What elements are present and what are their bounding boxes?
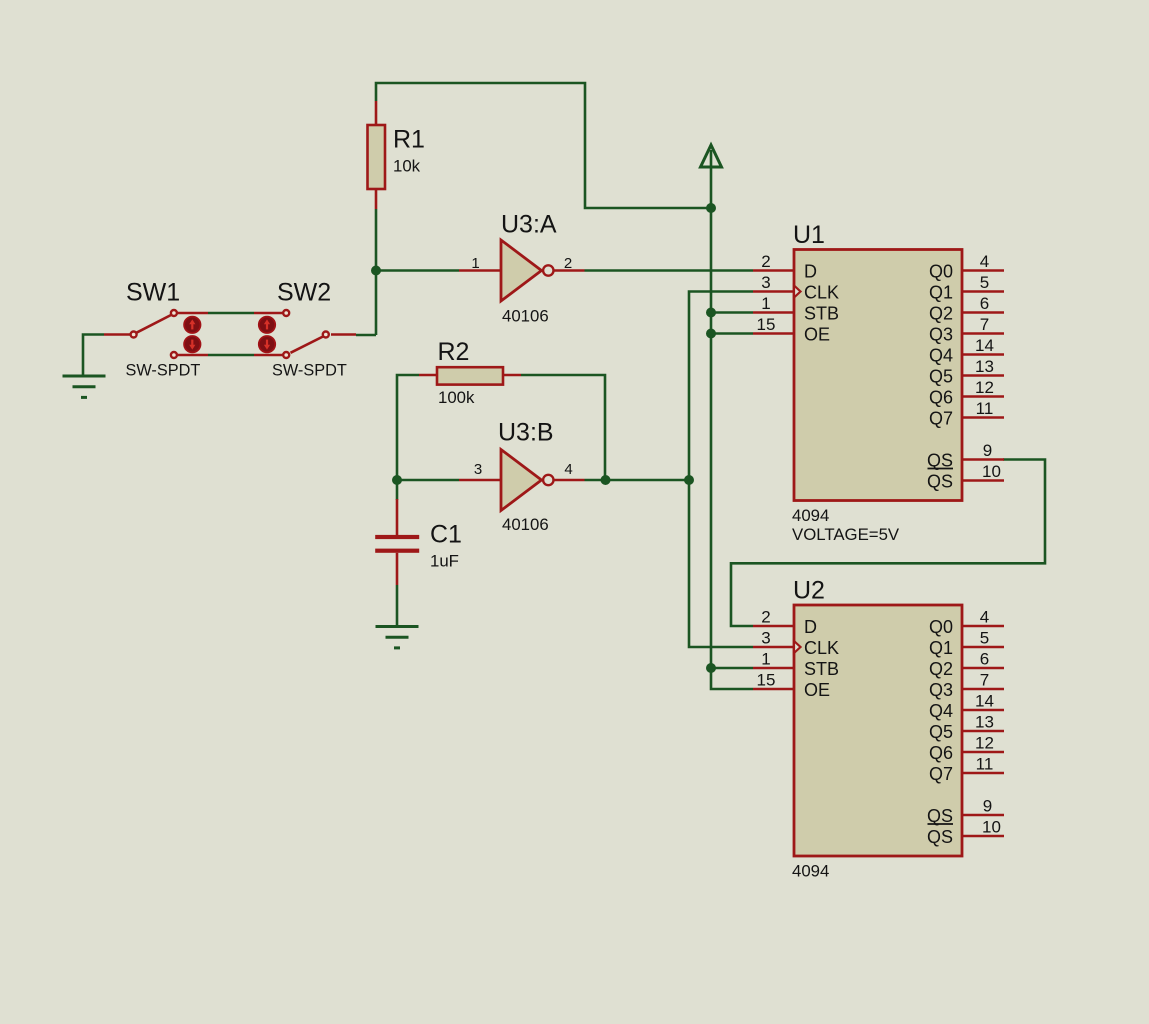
svg-text:5: 5	[980, 273, 989, 292]
IC U2 pin name QS-bar	[927, 824, 953, 847]
svg-text:40106: 40106	[502, 515, 549, 534]
switch SW2 throw bottom pin	[254, 354, 283, 357]
IC U2 CLK edge arrow	[794, 641, 801, 653]
inverter gate U3:A (40106)	[459, 240, 585, 301]
svg-text:9: 9	[983, 441, 992, 460]
svg-text:C1: C1	[430, 521, 462, 549]
svg-text:QS: QS	[927, 472, 953, 492]
IC U1 pin name QS-bar	[927, 469, 953, 492]
label SW1	[126, 279, 180, 307]
IC U2 pin 11 (Q7) stub	[962, 772, 1004, 775]
svg-text:10: 10	[982, 462, 1001, 481]
svg-text:4: 4	[564, 461, 572, 478]
svg-text:1: 1	[761, 650, 770, 669]
svg-text:Q4: Q4	[929, 346, 953, 366]
wire U1 OE branch	[711, 332, 753, 335]
pin number 4 (U3:B out)	[564, 461, 572, 478]
svg-text:9: 9	[983, 797, 992, 816]
IC U2 pin 1 (STB) stub	[753, 667, 794, 670]
IC U2 pin name Q2	[929, 659, 953, 679]
IC U1 pin number 2	[761, 252, 770, 271]
IC U2 pin name STB	[804, 659, 839, 679]
node junction R2 right / U3:B out	[601, 475, 611, 485]
IC U1 pin name Q4	[929, 346, 953, 366]
IC U1 pin 10 (QS-bar) stub	[962, 479, 1004, 482]
wire R2 right loop down	[521, 375, 605, 480]
switch SW1 pole terminal	[131, 332, 137, 338]
wire CLK vertical U1-U2	[689, 292, 753, 648]
svg-text:100k: 100k	[438, 388, 475, 407]
IC U2 pin 7 (Q3) stub	[962, 688, 1004, 691]
IC U2 pin number 12	[975, 734, 994, 753]
svg-text:SW1: SW1	[126, 279, 180, 307]
svg-text:3: 3	[761, 273, 770, 292]
svg-text:4094: 4094	[792, 862, 829, 881]
IC U2 pin name QS	[927, 806, 953, 826]
IC U1 CLK edge arrow	[794, 286, 801, 298]
IC U2 pin number 2	[761, 608, 770, 627]
svg-text:STB: STB	[804, 659, 839, 679]
svg-text:CLK: CLK	[804, 638, 839, 658]
svg-text:U1: U1	[793, 221, 825, 249]
IC U2 pin number 3	[761, 629, 770, 648]
IC U1 pin name OE	[804, 325, 830, 345]
value 10k	[393, 157, 421, 176]
svg-text:6: 6	[980, 650, 989, 669]
label U3:A	[501, 211, 557, 239]
IC U1 pin 1 (STB) stub	[753, 311, 794, 314]
svg-text:12: 12	[975, 378, 994, 397]
IC U1 pin name Q5	[929, 367, 953, 387]
IC U2 pin number 14	[975, 692, 994, 711]
IC U1 pin name STB	[804, 304, 839, 324]
svg-text:QS: QS	[927, 827, 953, 847]
svg-text:SW-SPDT: SW-SPDT	[272, 362, 347, 380]
IC U1 pin name CLK	[804, 283, 839, 303]
svg-text:Q4: Q4	[929, 701, 953, 721]
IC U1 pin 3 (CLK) stub	[753, 290, 794, 293]
svg-text:12: 12	[975, 734, 994, 753]
IC U1 pin 13 (Q5) stub	[962, 374, 1004, 377]
IC U1 pin number 13	[975, 357, 994, 376]
IC U1 pin 11 (Q7) stub	[962, 416, 1004, 419]
svg-text:U3:B: U3:B	[498, 419, 554, 447]
svg-text:40106: 40106	[502, 307, 549, 326]
wire power rail vertical with branch to U2 OE	[711, 150, 753, 689]
IC U1 pin name Q2	[929, 304, 953, 324]
switch SW1 throw top terminal	[171, 310, 177, 316]
IC U2 pin name Q3	[929, 680, 953, 700]
svg-text:CLK: CLK	[804, 283, 839, 303]
svg-text:Q2: Q2	[929, 659, 953, 679]
svg-text:QS: QS	[927, 451, 953, 471]
svg-text:13: 13	[975, 713, 994, 732]
IC U1 pin number 14	[975, 336, 994, 355]
wire U3:B output	[585, 479, 690, 482]
wire U2 STB branch	[711, 667, 753, 670]
IC U2 pin number 6	[980, 650, 989, 669]
inverter gate U3:B (40106)	[459, 450, 585, 511]
svg-text:D: D	[804, 262, 817, 282]
IC U2 pin 12 (Q6) stub	[962, 751, 1004, 754]
IC U1 pin number 15	[757, 315, 776, 334]
switch SW2 action up	[259, 317, 275, 333]
svg-text:1: 1	[471, 255, 479, 272]
svg-text:Q5: Q5	[929, 367, 953, 387]
IC U2 pin number 7	[980, 671, 989, 690]
switch SW2 throw top terminal	[283, 310, 289, 316]
svg-text:2: 2	[761, 608, 770, 627]
switch SW1 action up	[184, 317, 200, 333]
IC U1 pin name Q3	[929, 325, 953, 345]
IC U1 property VOLTAGE=5V	[792, 525, 900, 544]
svg-text:4: 4	[980, 252, 989, 271]
switch SW1 lever	[137, 315, 172, 333]
IC U1 pin 4 (Q0) stub	[962, 269, 1004, 272]
switch SW1 throw top pin	[178, 312, 209, 315]
label C1	[430, 521, 462, 549]
IC U2 pin name D	[804, 617, 817, 637]
IC U2 pin number 5	[980, 629, 989, 648]
IC U2 pin name Q6	[929, 743, 953, 763]
switch SW1 action down	[184, 336, 200, 352]
label U1	[793, 221, 825, 249]
svg-text:Q0: Q0	[929, 617, 953, 637]
IC U1 pin 7 (Q3) stub	[962, 332, 1004, 335]
IC U1 part value 4094	[792, 506, 829, 525]
svg-text:1: 1	[761, 294, 770, 313]
IC U1 pin number 6	[980, 294, 989, 313]
svg-text:VOLTAGE=5V: VOLTAGE=5V	[792, 525, 900, 544]
svg-text:4: 4	[980, 608, 989, 627]
svg-text:10k: 10k	[393, 157, 421, 176]
svg-text:2: 2	[564, 255, 572, 272]
power symbol VCC arrow	[701, 145, 722, 167]
svg-text:Q3: Q3	[929, 680, 953, 700]
svg-text:3: 3	[474, 461, 482, 478]
svg-text:13: 13	[975, 357, 994, 376]
IC U1 pin 5 (Q1) stub	[962, 290, 1004, 293]
node junction power-top wire	[706, 203, 716, 213]
IC U2 pin 15 (OE) stub	[753, 688, 794, 691]
IC U2 pin name Q4	[929, 701, 953, 721]
svg-text:U2: U2	[793, 577, 825, 605]
svg-text:7: 7	[980, 671, 989, 690]
IC U2 pin number 13	[975, 713, 994, 732]
IC U1 pin 15 (OE) stub	[753, 332, 794, 335]
svg-text:STB: STB	[804, 304, 839, 324]
IC U1 pin number 7	[980, 315, 989, 334]
svg-text:15: 15	[757, 671, 776, 690]
svg-text:R1: R1	[393, 126, 425, 154]
resistor R2 pin right	[503, 374, 521, 377]
svg-text:U3:A: U3:A	[501, 211, 557, 239]
IC U2 pin name OE	[804, 680, 830, 700]
resistor R1 body	[368, 125, 386, 189]
value SW-SPDT (SW2)	[272, 362, 347, 380]
wire U3:B input	[397, 479, 459, 482]
wire R1 top to power node (net VCC feedback loop)	[376, 83, 711, 208]
node junction U1 STB	[706, 308, 716, 318]
IC U1 pin number 5	[980, 273, 989, 292]
value SW-SPDT (SW1)	[126, 362, 201, 380]
switch SW1 pole pin	[104, 333, 130, 336]
pin number 3 (U3:B in)	[474, 461, 482, 478]
IC U1 pin number 10	[982, 462, 1001, 481]
svg-text:QS: QS	[927, 806, 953, 826]
wire R2 left loop down	[397, 375, 419, 480]
IC U2 pin name CLK	[804, 638, 839, 658]
IC U1 pin 12 (Q6) stub	[962, 395, 1004, 398]
IC U2 body (4094)	[794, 605, 962, 856]
IC U1 pin number 4	[980, 252, 989, 271]
IC U1 pin 6 (Q2) stub	[962, 311, 1004, 314]
svg-text:Q1: Q1	[929, 283, 953, 303]
label R1	[393, 126, 425, 154]
IC U2 part value 4094	[792, 862, 829, 881]
switch SW2 pole pin	[331, 333, 356, 336]
wire SW2 pole to vertical	[356, 334, 376, 337]
IC U2 pin number 9	[983, 797, 992, 816]
wire U3:A output to U1 D	[585, 269, 754, 272]
IC U2 pin 5 (Q1) stub	[962, 646, 1004, 649]
pin number 1 (U3:A in)	[471, 255, 479, 272]
IC U1 pin name Q1	[929, 283, 953, 303]
IC U1 pin name Q6	[929, 388, 953, 408]
wire U1 QS to U2 D loop	[731, 460, 1045, 627]
value 1uF	[430, 552, 459, 571]
IC U2 pin 2 (D) stub	[753, 625, 794, 628]
IC U1 pin 14 (Q4) stub	[962, 353, 1004, 356]
switch SW2 action down	[259, 336, 275, 352]
value 100k	[438, 388, 475, 407]
node junction R1/SW/U3:A input	[371, 266, 381, 276]
svg-text:10: 10	[982, 818, 1001, 837]
pin number 2 (U3:A out)	[564, 255, 572, 272]
IC U2 pin number 1	[761, 650, 770, 669]
svg-text:4094: 4094	[792, 506, 829, 525]
capacitor C1 plate top	[375, 535, 419, 539]
svg-text:Q5: Q5	[929, 722, 953, 742]
ground under SW1	[63, 376, 106, 397]
label U2	[793, 577, 825, 605]
svg-text:14: 14	[975, 336, 994, 355]
svg-text:11: 11	[976, 755, 994, 774]
IC U1 pin 9 (QS) stub	[962, 458, 1004, 461]
IC U2 pin 10 (QS-bar) stub	[962, 835, 1004, 838]
node junction U1 OE	[706, 329, 716, 339]
node junction U2 STB	[706, 663, 716, 673]
ground under C1	[376, 627, 419, 648]
svg-text:Q0: Q0	[929, 262, 953, 282]
switch SW2 pole terminal	[323, 332, 329, 338]
IC U1 pin name QS	[927, 451, 953, 471]
switch SW2 throw top pin	[254, 312, 283, 315]
wire C1 top stub	[396, 480, 399, 500]
svg-text:D: D	[804, 617, 817, 637]
label R2	[438, 338, 470, 366]
value 40106 (U3:A)	[502, 307, 549, 326]
IC U2 pin number 11	[976, 755, 994, 774]
wire SW1-SW2 top link	[208, 312, 254, 315]
label SW2	[277, 279, 331, 307]
svg-text:7: 7	[980, 315, 989, 334]
wire SW1 pole to ground	[83, 335, 104, 377]
svg-text:Q6: Q6	[929, 743, 953, 763]
svg-text:1uF: 1uF	[430, 552, 459, 571]
switch SW1 throw bottom pin	[178, 354, 209, 357]
IC U2 pin name Q5	[929, 722, 953, 742]
IC U2 pin 9 (QS) stub	[962, 814, 1004, 817]
capacitor C1 pin bottom	[396, 553, 399, 585]
IC U2 pin name Q0	[929, 617, 953, 637]
IC U1 pin number 9	[983, 441, 992, 460]
IC U2 pin 3 (CLK) stub	[753, 646, 794, 649]
svg-text:Q1: Q1	[929, 638, 953, 658]
IC U1 body (4094)	[794, 250, 962, 501]
IC U2 pin 14 (Q4) stub	[962, 709, 1004, 712]
svg-text:2: 2	[761, 252, 770, 271]
IC U2 pin name Q1	[929, 638, 953, 658]
svg-text:OE: OE	[804, 680, 830, 700]
IC U1 pin name Q7	[929, 409, 953, 429]
IC U1 pin 2 (D) stub	[753, 269, 794, 272]
svg-text:Q6: Q6	[929, 388, 953, 408]
IC U2 pin 13 (Q5) stub	[962, 730, 1004, 733]
IC U2 pin 4 (Q0) stub	[962, 625, 1004, 628]
IC U2 pin name Q7	[929, 764, 953, 784]
IC U2 pin number 15	[757, 671, 776, 690]
IC U2 pin 6 (Q2) stub	[962, 667, 1004, 670]
svg-text:Q2: Q2	[929, 304, 953, 324]
svg-text:11: 11	[976, 399, 994, 418]
svg-text:3: 3	[761, 629, 770, 648]
svg-text:Q7: Q7	[929, 764, 953, 784]
resistor R2 body	[437, 367, 503, 384]
wire R1 bottom / SW2 pole vertical	[375, 209, 378, 335]
svg-text:R2: R2	[438, 338, 470, 366]
capacitor C1 pin top	[396, 499, 399, 535]
svg-text:14: 14	[975, 692, 994, 711]
svg-text:SW-SPDT: SW-SPDT	[126, 362, 201, 380]
resistor R1 pin top	[375, 101, 378, 125]
svg-text:SW2: SW2	[277, 279, 331, 307]
svg-text:5: 5	[980, 629, 989, 648]
IC U1 pin name D	[804, 262, 817, 282]
label U3:B	[498, 419, 554, 447]
svg-text:Q7: Q7	[929, 409, 953, 429]
svg-text:Q3: Q3	[929, 325, 953, 345]
IC U2 pin number 4	[980, 608, 989, 627]
IC U1 pin number 1	[761, 294, 770, 313]
switch SW1 throw bottom terminal	[171, 352, 177, 358]
IC U1 pin number 3	[761, 273, 770, 292]
switch SW2 lever	[291, 337, 324, 353]
IC U1 pin number 12	[975, 378, 994, 397]
resistor R1 pin bottom	[375, 189, 378, 209]
IC U1 pin name Q0	[929, 262, 953, 282]
wire C1 bottom to ground	[396, 585, 399, 626]
node junction CLK net	[684, 475, 694, 485]
svg-text:15: 15	[757, 315, 776, 334]
wire U3:A input	[376, 269, 459, 272]
value 40106 (U3:B)	[502, 515, 549, 534]
wire U1 STB branch	[711, 311, 753, 314]
switch SW2 throw bottom terminal	[283, 352, 289, 358]
IC U2 pin number 10	[982, 818, 1001, 837]
node junction U3:B input / C1 / R2	[392, 475, 402, 485]
IC U1 pin number 11	[976, 399, 994, 418]
svg-text:OE: OE	[804, 325, 830, 345]
resistor R2 pin left	[419, 374, 437, 377]
capacitor C1 plate bottom	[375, 549, 419, 553]
wire SW1-SW2 bottom link	[208, 354, 254, 357]
svg-text:6: 6	[980, 294, 989, 313]
